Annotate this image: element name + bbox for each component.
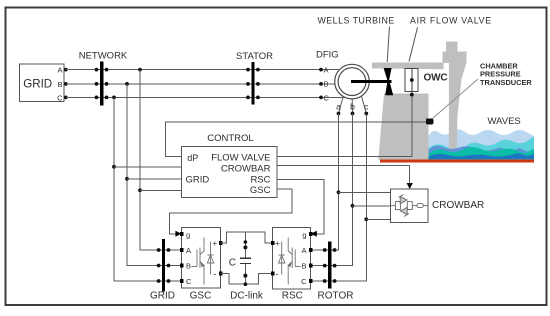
wire DC-link negative rail: [221, 274, 273, 285]
crowbar thyristor symbol: [391, 195, 428, 217]
svg-text:c: c: [364, 102, 369, 112]
RSC IGBT symbol (mirrored): [279, 238, 301, 285]
junction dot phase C drop: [112, 96, 116, 100]
crowbar box: [391, 189, 428, 223]
wire phase A rail: [66, 69, 340, 71]
svg-text:STATOR: STATOR: [236, 51, 273, 62]
wire phase A drop to GSC pin A: [140, 70, 182, 250]
svg-text:A: A: [324, 65, 329, 74]
RSC pin marker B: [309, 264, 313, 268]
GSC pin marker minus: [219, 272, 223, 276]
junction dot crowbar tap a: [337, 190, 341, 194]
waves blue mid layer: [429, 146, 535, 160]
stator terminal dot B: [319, 82, 323, 86]
svg-text:CONTROL: CONTROL: [207, 133, 253, 144]
svg-text:WAVES: WAVES: [488, 116, 521, 127]
chamber pressure transducer leader line: [433, 79, 479, 119]
svg-text:GRID: GRID: [23, 78, 52, 91]
svg-text:ROTOR: ROTOR: [318, 291, 354, 302]
GSC pin marker B: [180, 264, 184, 268]
red foundation bar: [380, 159, 534, 162]
bus GRID dots: [157, 248, 171, 283]
wells turbine rotor blades: [384, 68, 394, 95]
GSC pin marker plus: [219, 241, 223, 245]
slip ring lead c: [362, 96, 367, 114]
RSC pin marker plus: [271, 241, 275, 245]
svg-text:A: A: [57, 66, 62, 75]
svg-text:B: B: [186, 262, 191, 271]
wire DC-link positive rail: [221, 232, 273, 243]
wire RSC gate command: [277, 180, 324, 234]
valve dot: [410, 78, 414, 82]
GSC pin marker A: [180, 248, 184, 252]
DFIG outer circle: [335, 64, 370, 99]
arrowhead into RSC g pin: [311, 231, 317, 237]
wire crowbar tap c: [366, 218, 390, 220]
chimney shoulder: [443, 52, 467, 64]
wire crowbar tap a: [339, 191, 391, 193]
RSC pin marker C: [309, 279, 313, 283]
bus ROTOR bar: [328, 242, 331, 289]
GSC pin marker g: [180, 232, 184, 236]
svg-text:NETWORK: NETWORK: [79, 51, 128, 62]
svg-text:B: B: [324, 80, 329, 89]
svg-text:-: -: [214, 269, 217, 279]
svg-text:AIR FLOW VALVE: AIR FLOW VALVE: [410, 16, 492, 26]
pin dot C: [64, 96, 68, 100]
wire crowbar tap b: [353, 205, 391, 207]
wire GSC gate command: [170, 189, 292, 234]
wire tap to control input 1: [114, 166, 182, 168]
GSC IGBT symbol: [192, 238, 214, 285]
stator terminal dot C: [319, 96, 323, 100]
rotor terminal dot a: [337, 112, 341, 116]
svg-text:C: C: [301, 277, 307, 286]
svg-text:+: +: [213, 239, 218, 248]
junction dots on capacitor branch: [244, 240, 248, 244]
bus STATOR bar: [251, 62, 254, 105]
RSC pin marker A: [309, 248, 313, 252]
shaft: [351, 80, 392, 83]
valve lower dot: [410, 93, 414, 97]
wire phase B drop to GSC pin B: [127, 84, 182, 266]
bus STATOR dots: [246, 68, 260, 100]
wire dP sense from transducer: [166, 122, 427, 156]
wire phase B rail: [66, 83, 335, 85]
air flow valve leader line: [409, 28, 418, 62]
svg-text:GSC: GSC: [190, 291, 212, 302]
wire rotor phase b: [311, 114, 353, 266]
bus ROTOR dots: [323, 248, 337, 283]
svg-text:CROWBAR: CROWBAR: [221, 163, 271, 174]
svg-text:GRID: GRID: [150, 291, 175, 302]
svg-text:+: +: [275, 239, 280, 248]
capacitor C plates: [240, 257, 251, 259]
junction dot tap A: [138, 188, 142, 192]
arrowhead into GSC g pin: [175, 231, 181, 237]
slip ring lead a: [339, 96, 344, 114]
svg-text:FLOW VALVE: FLOW VALVE: [211, 153, 270, 164]
svg-text:WELLS TURBINE: WELLS TURBINE: [318, 16, 395, 26]
wire tap to control input 2: [127, 178, 182, 180]
junction dot phase A drop: [138, 68, 142, 72]
capacitor C leads: [244, 232, 246, 258]
RSC pin marker g: [309, 232, 313, 236]
chamber pressure transducer marker: [426, 119, 433, 125]
chamber left wall: [378, 94, 428, 160]
bus NETWORK bar: [100, 62, 103, 106]
wells turbine leader line: [387, 27, 389, 63]
svg-text:C: C: [229, 257, 236, 268]
svg-text:A: A: [301, 246, 306, 255]
svg-text:B: B: [301, 262, 306, 271]
waves cyan crest layer: [429, 137, 535, 160]
svg-text:a: a: [336, 102, 341, 112]
chimney top column: [446, 41, 457, 52]
svg-text:RSC: RSC: [282, 291, 303, 302]
pin dot B: [64, 82, 68, 86]
svg-text:DC-link: DC-link: [230, 291, 264, 302]
waves front dark-blue layer: [429, 153, 535, 159]
svg-text:GSC: GSC: [250, 185, 271, 196]
bus NETWORK dots: [95, 68, 109, 100]
svg-text:OWC: OWC: [424, 73, 448, 84]
svg-text:B: B: [57, 80, 62, 89]
junction dot tap C: [112, 165, 116, 169]
GSC pin marker C: [180, 279, 184, 283]
svg-text:-: -: [276, 269, 279, 279]
wire rotor phase a: [311, 114, 339, 251]
svg-text:dP: dP: [187, 153, 198, 163]
RSC box: [273, 228, 311, 289]
svg-text:C: C: [57, 94, 63, 103]
svg-text:A: A: [186, 246, 191, 255]
svg-text:CROWBAR: CROWBAR: [432, 200, 484, 211]
svg-text:b: b: [350, 102, 355, 112]
RSC pin marker minus: [271, 272, 275, 276]
stator terminal dot A: [319, 68, 323, 72]
control box U1: [182, 146, 277, 197]
rotor terminal dot b: [351, 112, 355, 116]
chamber right wall pillar: [449, 63, 467, 151]
slip ring lead b: [351, 99, 353, 114]
wire crowbar command: [277, 165, 410, 185]
rotor terminal dot c: [364, 112, 368, 116]
wire rotor phase c: [311, 114, 367, 282]
grid source box: [20, 64, 65, 102]
GSC box: [182, 228, 221, 289]
wire flow valve command: [277, 69, 412, 157]
DFIG inner circle: [338, 68, 366, 96]
wire tap to control input 3: [140, 189, 182, 191]
waves teal-green layer: [429, 147, 535, 159]
pin dot A: [64, 68, 68, 72]
wire phase C rail: [66, 96, 345, 98]
arrowhead into crowbar top: [407, 183, 413, 189]
svg-text:g: g: [186, 231, 190, 240]
svg-text:C: C: [324, 93, 330, 102]
svg-text:DFIG: DFIG: [316, 50, 339, 61]
bus GRID (converter) bar: [162, 239, 165, 292]
waves back light layer: [429, 129, 535, 159]
junction dot crowbar tap c: [364, 217, 368, 221]
junction dot crowbar tap b: [351, 204, 355, 208]
svg-text:GRID: GRID: [186, 175, 210, 186]
junction dot tap B: [125, 177, 129, 181]
air flow valve body: [405, 69, 418, 92]
svg-text:g: g: [302, 231, 306, 240]
valve stem line: [411, 69, 413, 92]
svg-text:C: C: [186, 277, 192, 286]
wire phase C drop to GSC pin C: [114, 97, 182, 281]
junction dot phase B drop: [125, 82, 129, 86]
turbine duct slab: [372, 63, 444, 70]
svg-text:TRANSDUCER: TRANSDUCER: [480, 78, 532, 87]
